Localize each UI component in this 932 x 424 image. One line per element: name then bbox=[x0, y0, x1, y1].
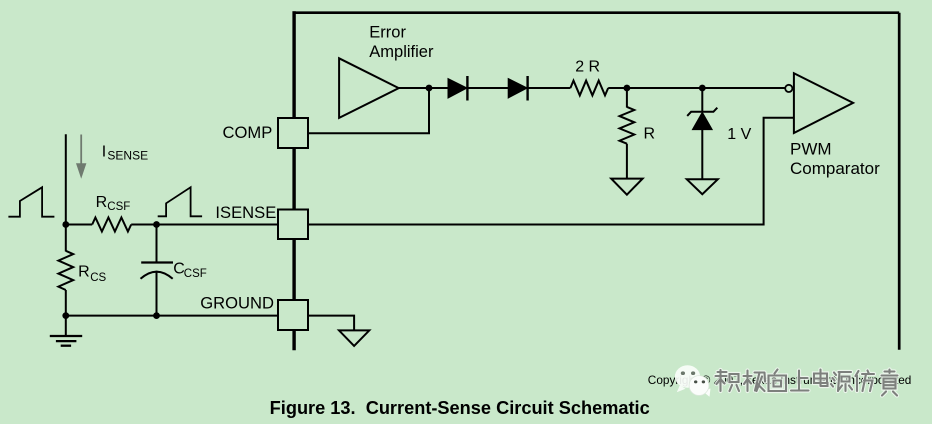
label RCS bbox=[78, 264, 106, 284]
svg-text:R: R bbox=[96, 194, 108, 211]
resistor RCS bbox=[58, 251, 73, 290]
watermark chinese text 积极向上电源仿真 bbox=[716, 370, 898, 396]
IC boundary outline (top and right border) bbox=[293, 11, 900, 350]
svg-text:R: R bbox=[78, 264, 90, 281]
wire: zener anode to ground bbox=[701, 130, 703, 180]
inverting input bubble of PWM comparator bbox=[785, 85, 792, 92]
label PWM Comparator bbox=[790, 140, 880, 179]
svg-text:Error: Error bbox=[369, 24, 406, 42]
svg-text:Figure 13. Current-Sense Circ: Figure 13. Current-Sense Circuit Schemat… bbox=[270, 398, 650, 418]
earth ground symbol bbox=[50, 336, 82, 346]
capacitor CCSF bbox=[141, 263, 174, 279]
node F: ground junction under RCS bbox=[62, 312, 69, 319]
diode D2 bbox=[508, 76, 527, 101]
svg-text:SENSE: SENSE bbox=[107, 148, 148, 162]
wire: node C down to zener bbox=[701, 88, 703, 112]
waveform at left input bbox=[8, 187, 54, 216]
svg-text:GROUND: GROUND bbox=[200, 294, 274, 313]
resistor 2R bbox=[570, 81, 608, 96]
resistor RCSF bbox=[92, 218, 131, 232]
wire: sense input vertical line at left bbox=[65, 134, 67, 224]
wire: node D to resistor RCSF bbox=[66, 224, 92, 226]
node C: junction of wire and zener diode bbox=[699, 85, 706, 92]
wire: node B down to resistor R bbox=[626, 88, 628, 108]
pin box GROUND bbox=[278, 300, 308, 330]
svg-text:1 V: 1 V bbox=[727, 126, 751, 143]
watermark wechat logo bbox=[675, 365, 711, 397]
wire: error amplifier output to diode D1 bbox=[399, 87, 449, 89]
pin box ISENSE bbox=[278, 210, 308, 240]
wire: node E down to capacitor CCSF bbox=[156, 225, 158, 263]
svg-text:CSF: CSF bbox=[107, 201, 130, 213]
wire: resistor RCS to ground node bbox=[65, 290, 67, 316]
label RCSF bbox=[96, 194, 131, 213]
node G: ground junction under CCSF bbox=[153, 312, 160, 319]
wire: node D down to resistor RCS bbox=[65, 225, 67, 252]
wire: resistor RCSF to ISENSE pin bbox=[131, 224, 278, 226]
resistor R bbox=[620, 107, 635, 144]
svg-text:CSF: CSF bbox=[184, 268, 207, 280]
wire: capacitor CCSF to ground wire bbox=[156, 271, 158, 316]
wire: ground bus from RCS to GROUND pin bbox=[66, 315, 278, 317]
current arrow ISENSE bbox=[76, 135, 86, 179]
wire: resistor 2R to PWM comparator inverting input bubble bbox=[608, 87, 785, 89]
diode D1 bbox=[448, 76, 467, 101]
waveform at ISENSE node bbox=[158, 187, 202, 216]
svg-text:ISENSE: ISENSE bbox=[215, 203, 276, 222]
node A: error amplifier output junction bbox=[426, 85, 433, 92]
wire: diode D1 cathode to diode D2 anode bbox=[467, 87, 508, 89]
node E: junction of RCSF and CCSF bbox=[153, 221, 160, 228]
svg-text:CS: CS bbox=[90, 272, 106, 284]
svg-text:I: I bbox=[102, 143, 106, 160]
label ISENSE current bbox=[102, 143, 148, 162]
svg-text:Amplifier: Amplifier bbox=[369, 43, 434, 61]
node B: junction of 2R, R and wire bbox=[624, 85, 631, 92]
wire: diode D2 cathode to resistor 2R bbox=[528, 87, 571, 89]
svg-text:R: R bbox=[644, 126, 656, 143]
error amplifier U1 bbox=[339, 58, 399, 118]
zener diode VR1 1V bbox=[687, 108, 717, 130]
label Error Amplifier bbox=[369, 24, 434, 61]
PWM comparator U2 bbox=[794, 73, 853, 133]
svg-text:PWM: PWM bbox=[790, 140, 832, 159]
wire: COMP feedback from output node down and left to COMP pin box bbox=[308, 88, 429, 133]
ground symbol right of GROUND pin bbox=[339, 330, 369, 346]
svg-text:2 R: 2 R bbox=[575, 59, 600, 76]
label CCSF bbox=[173, 260, 207, 280]
svg-text:Comparator: Comparator bbox=[790, 159, 880, 178]
wire: ISENSE pin to PWM comparator non-inverting input bbox=[308, 118, 794, 225]
ground symbol under zener bbox=[687, 179, 718, 194]
pin box COMP bbox=[278, 118, 308, 148]
wire: resistor R to ground bbox=[626, 144, 628, 179]
node D: junction left of RCSF bbox=[62, 221, 69, 228]
svg-text:COMP: COMP bbox=[223, 123, 273, 142]
wire: GROUND pin to chassis ground triangle bbox=[308, 316, 354, 331]
wire: node F down to earth ground bbox=[65, 316, 67, 336]
ground symbol under resistor R bbox=[611, 179, 642, 195]
